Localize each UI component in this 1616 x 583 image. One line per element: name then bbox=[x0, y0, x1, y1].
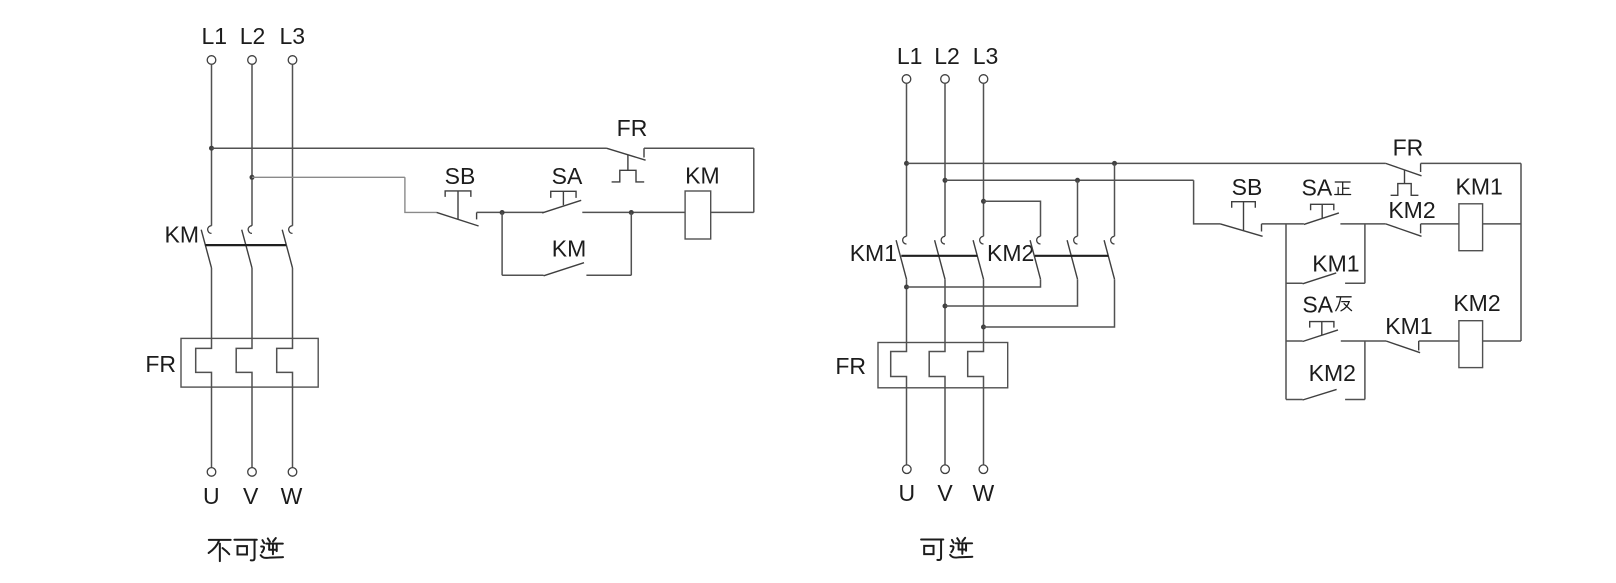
thermal contact FR NC blade bbox=[606, 148, 645, 160]
wire SB to SA-forward bbox=[1262, 223, 1304, 225]
interlock KM1 NC blade bbox=[1386, 341, 1420, 353]
contactor KM1 linkage bar bbox=[901, 255, 977, 257]
node junction dot B (SA-coil) bbox=[629, 210, 634, 215]
coil KM2 bbox=[1459, 321, 1483, 368]
node junction L3 crossover bbox=[981, 199, 986, 204]
switch SA-forward label 正 bbox=[1335, 182, 1351, 194]
node junction on L1 to control rail bbox=[209, 146, 214, 151]
thermal contact FR right trip stem bbox=[1404, 170, 1406, 184]
svg-text:FR: FR bbox=[145, 351, 176, 377]
contactor KM2 pole 2 fixed terminal bbox=[1074, 236, 1078, 244]
wire right rail vertical bbox=[1520, 163, 1522, 341]
svg-text:KM2: KM2 bbox=[987, 240, 1034, 266]
contactor KM1 pole 3 fixed terminal bbox=[980, 236, 984, 244]
coil KM bbox=[685, 191, 711, 239]
node junction on L2 to control rail bbox=[250, 175, 255, 180]
thermal contact FR right trip symbol bbox=[1391, 184, 1419, 196]
contactor KM1 pole 2 blade bbox=[935, 240, 945, 279]
terminal L1 right bbox=[902, 75, 911, 84]
wire KM1 interlock to KM2 coil bbox=[1419, 340, 1459, 342]
wire L2 vertical right bbox=[944, 83, 946, 236]
svg-text:KM: KM bbox=[685, 162, 720, 188]
wire rail corner down to SB bbox=[405, 177, 437, 212]
wire motor lead right 3 bbox=[983, 388, 985, 465]
auxiliary contact KM left drop bbox=[501, 212, 503, 275]
auxiliary KM1 bottom-right wire bbox=[1345, 282, 1365, 284]
wire SA to coil branch bbox=[582, 211, 685, 213]
thermal relay FR right heater element 3 bbox=[968, 343, 984, 388]
wire KM2 interlock to KM1 coil bbox=[1421, 223, 1459, 225]
svg-text:SA: SA bbox=[552, 163, 583, 189]
caption character 可 bbox=[234, 540, 256, 561]
contactor KM main contact pole 3 blade bbox=[282, 230, 292, 268]
auxiliary KM2 bottom-left wire bbox=[1286, 399, 1303, 401]
svg-text:KM1: KM1 bbox=[1385, 313, 1432, 339]
terminal V right bbox=[941, 465, 950, 474]
wire motor lead 1 bbox=[211, 387, 213, 468]
auxiliary KM2 bottom-right wire bbox=[1345, 399, 1365, 401]
caption character 逆 right bbox=[950, 538, 972, 558]
caption character 逆 bbox=[261, 538, 283, 558]
wire L3 crossover to KM2 pole1 bbox=[984, 201, 1041, 236]
contactor KM1 pole 1 blade bbox=[896, 240, 906, 279]
pushbutton SB right cap bbox=[1232, 202, 1256, 208]
terminal W bbox=[288, 468, 297, 477]
wire L3 vertical bbox=[292, 64, 294, 225]
contactor KM main contact pole 2 fixed terminal bbox=[248, 226, 252, 234]
auxiliary contact KM bottom-left wire bbox=[502, 274, 543, 276]
pushbutton SB right stub bbox=[1261, 224, 1263, 232]
contactor KM main contact pole 1 blade bbox=[201, 230, 211, 268]
wire branch drop left bbox=[1285, 224, 1287, 400]
svg-text:U: U bbox=[898, 480, 915, 506]
svg-text:KM: KM bbox=[165, 222, 200, 248]
contactor KM2 pole 3 fixed terminal bbox=[1111, 236, 1115, 244]
wire SB to SA bbox=[477, 211, 544, 213]
auxiliary KM2 right riser bbox=[1364, 341, 1366, 400]
wire motor lead 3 bbox=[292, 387, 294, 468]
node junction top rail to KM2 pole3 bbox=[1112, 161, 1117, 166]
svg-text:KM2: KM2 bbox=[1309, 360, 1356, 386]
svg-text:L1: L1 bbox=[897, 43, 923, 69]
svg-text:W: W bbox=[281, 483, 303, 509]
contactor KM2 linkage bar bbox=[1035, 255, 1109, 257]
svg-text:W: W bbox=[973, 480, 995, 506]
interlock KM2 stub bbox=[1420, 224, 1422, 233]
terminal U bbox=[207, 468, 216, 477]
switch SA-reverse NO blade bbox=[1303, 330, 1338, 342]
node junction KM1 pole1 / KM2 pole1 bbox=[904, 285, 909, 290]
thermal contact FR right stub bbox=[1420, 163, 1422, 172]
svg-text:L1: L1 bbox=[202, 23, 228, 49]
terminal L2 right bbox=[941, 75, 950, 84]
caption character 不 bbox=[209, 540, 231, 561]
wire L2 vertical bbox=[251, 64, 253, 225]
contactor KM linkage bar bbox=[205, 244, 286, 246]
wire second rail corner to SB bbox=[1194, 180, 1221, 224]
terminal U right bbox=[903, 465, 912, 474]
svg-text:L2: L2 bbox=[240, 23, 266, 49]
pushbutton SB right NC blade bbox=[1220, 224, 1262, 236]
svg-text:KM1: KM1 bbox=[1456, 174, 1503, 200]
svg-text:SA: SA bbox=[1302, 291, 1333, 317]
contactor KM main contact pole 1 fixed terminal bbox=[208, 226, 212, 234]
svg-text:U: U bbox=[203, 483, 220, 509]
wire KM pole 3 down to FR bbox=[292, 268, 294, 339]
contactor KM2 pole 1 fixed terminal bbox=[1037, 236, 1041, 244]
wire branch to SA-reverse bbox=[1286, 340, 1303, 342]
thermal contact FR right NC blade bbox=[1386, 163, 1422, 175]
pushbutton SB NC blade bbox=[437, 212, 479, 226]
thermal relay FR right heater element 1 bbox=[891, 343, 907, 388]
contactor KM2 pole 1 blade bbox=[1030, 240, 1040, 279]
switch SA-reverse label 反 bbox=[1336, 297, 1352, 311]
wire motor lead 2 bbox=[251, 387, 253, 468]
svg-text:KM2: KM2 bbox=[1388, 197, 1435, 223]
thermal relay FR heater element 3 bbox=[277, 338, 293, 387]
wire top control rail from L1 bbox=[212, 147, 607, 149]
contactor KM main contact pole 3 fixed terminal bbox=[289, 226, 293, 234]
wire KM pole 2 down to FR bbox=[251, 268, 253, 339]
contactor KM2 pole 3 blade bbox=[1104, 240, 1114, 279]
thermal relay FR right heater element 2 bbox=[929, 343, 945, 388]
switch SA-forward NO blade bbox=[1304, 213, 1339, 225]
svg-text:L2: L2 bbox=[934, 43, 960, 69]
wire drop to KM2 pole 3 bbox=[1114, 163, 1116, 236]
svg-text:FR: FR bbox=[835, 353, 866, 379]
auxiliary KM1 right riser bbox=[1364, 224, 1366, 283]
terminal V bbox=[248, 468, 257, 477]
wire KM1 coil to right rail bbox=[1483, 223, 1521, 225]
caption character 可 right bbox=[921, 539, 943, 560]
wire second control rail from L2 bbox=[252, 176, 405, 178]
svg-text:FR: FR bbox=[617, 115, 648, 141]
switch SA-reverse cap bbox=[1310, 322, 1334, 328]
contactor KM1 pole 3 blade bbox=[973, 240, 983, 279]
auxiliary KM2 NO blade bbox=[1303, 389, 1337, 400]
svg-text:V: V bbox=[937, 480, 953, 506]
terminal L2 bbox=[248, 56, 257, 65]
interlock KM1 stub bbox=[1418, 341, 1420, 351]
node junction dot A (SB-SA) bbox=[500, 210, 505, 215]
wire FR to right corner bbox=[644, 147, 754, 149]
wire SA-forward to KM2 interlock bbox=[1340, 223, 1385, 225]
svg-text:SB: SB bbox=[1232, 174, 1263, 200]
auxiliary KM1 bottom-left wire bbox=[1286, 282, 1303, 284]
node junction KM1 pole3 / KM2 pole3 bbox=[981, 325, 986, 330]
wire L1 vertical right bbox=[906, 83, 908, 236]
auxiliary KM1 NO blade bbox=[1303, 273, 1337, 284]
svg-text:KM: KM bbox=[552, 236, 587, 262]
wire drop to KM2 pole 2 bbox=[1077, 180, 1079, 236]
thermal relay FR box right bbox=[878, 343, 1008, 388]
switch SA-forward cap bbox=[1311, 204, 1334, 210]
svg-text:V: V bbox=[243, 483, 259, 509]
wire FR to right rail corner bbox=[1421, 162, 1521, 164]
thermal contact FR trip symbol bbox=[612, 170, 645, 182]
pushbutton SB cap bbox=[445, 191, 471, 197]
wire KM2 coil to right rail bbox=[1483, 340, 1521, 342]
svg-text:FR: FR bbox=[1393, 134, 1424, 160]
wire right side drop bbox=[753, 148, 755, 212]
interlock KM2 NC blade bbox=[1386, 224, 1422, 236]
wire L1 vertical bbox=[211, 64, 213, 225]
switch SA NO blade bbox=[542, 200, 581, 213]
node junction L2 to second rail bbox=[943, 178, 948, 183]
node junction L1 to top rail bbox=[904, 161, 909, 166]
wire SA-reverse to KM1 interlock bbox=[1341, 340, 1386, 342]
svg-text:KM1: KM1 bbox=[850, 240, 897, 266]
terminal L1 bbox=[207, 56, 216, 65]
svg-text:SB: SB bbox=[445, 163, 476, 189]
wire KM1 pole 3 down bbox=[983, 279, 985, 342]
wire coil to right drop bbox=[711, 211, 754, 213]
wire motor lead right 2 bbox=[944, 388, 946, 465]
switch SA cap bbox=[551, 191, 576, 198]
svg-text:SA: SA bbox=[1302, 174, 1333, 200]
wire KM1 pole 2 down bbox=[944, 279, 946, 342]
node junction second rail to KM2 pole2 bbox=[1075, 178, 1080, 183]
coil KM1 bbox=[1459, 204, 1483, 251]
pushbutton SB right terminal stub bbox=[476, 212, 478, 219]
wire second rail right diagram bbox=[945, 179, 1194, 181]
node junction KM1 pole2 / KM2 pole2 bbox=[943, 304, 948, 309]
wire motor lead right 1 bbox=[906, 388, 908, 465]
thermal relay FR heater element 1 bbox=[196, 338, 212, 387]
wire L3 vertical right bbox=[983, 83, 985, 236]
terminal L3 bbox=[288, 56, 297, 65]
auxiliary contact KM right riser bbox=[630, 212, 632, 275]
auxiliary contact KM NO blade bbox=[544, 263, 584, 276]
thermal contact FR trip stem bbox=[627, 155, 629, 170]
contactor KM2 pole 2 blade bbox=[1067, 240, 1077, 279]
terminal W right bbox=[979, 465, 988, 474]
contactor KM1 pole 2 fixed terminal bbox=[941, 236, 945, 244]
thermal contact FR right stub bbox=[643, 148, 645, 157]
terminal L3 right bbox=[979, 75, 988, 84]
wire KM2 pole1 to KM1 pole1 bbox=[907, 279, 1041, 287]
wire KM2 pole3 to KM1 pole3 bbox=[984, 279, 1115, 327]
auxiliary contact KM bottom-right wire bbox=[586, 274, 631, 276]
svg-text:L3: L3 bbox=[280, 23, 306, 49]
thermal relay FR heater element 2 bbox=[236, 338, 252, 387]
thermal relay FR box bbox=[181, 338, 318, 387]
svg-text:KM2: KM2 bbox=[1453, 290, 1500, 316]
contactor KM1 pole 1 fixed terminal bbox=[903, 236, 907, 244]
wire KM2 pole2 to KM1 pole2 bbox=[945, 279, 1078, 306]
wire KM1 pole 1 down bbox=[906, 279, 908, 342]
svg-text:L3: L3 bbox=[973, 43, 999, 69]
contactor KM main contact pole 2 blade bbox=[242, 230, 252, 268]
wire KM pole 1 down to FR bbox=[211, 268, 213, 339]
wire top rail right diagram bbox=[907, 162, 1386, 164]
